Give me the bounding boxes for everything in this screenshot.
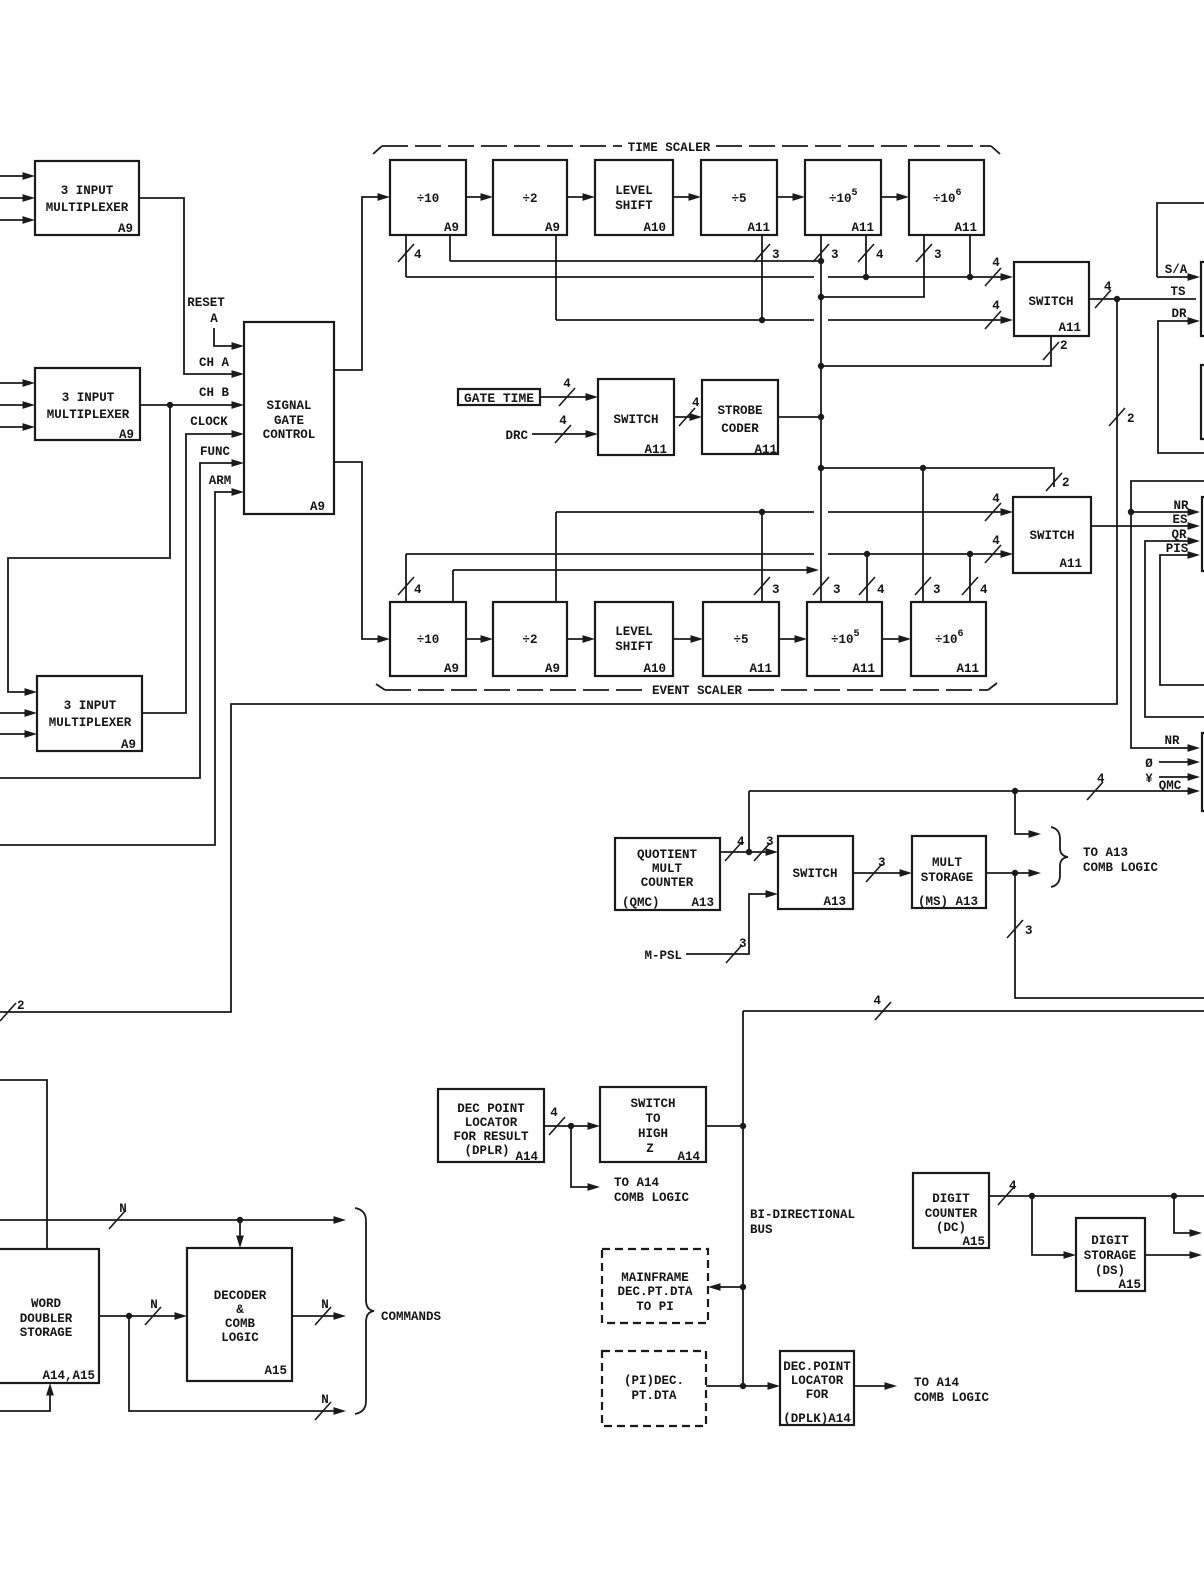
svg-text:STORAGE: STORAGE	[20, 1326, 73, 1340]
wire TS return path down-left-down to left edge (2-bit)	[0, 299, 1135, 1021]
wire MUX2 input 2	[0, 401, 35, 409]
svg-text:4: 4	[877, 583, 885, 597]
svg-text:CLOCK: CLOCK	[190, 415, 228, 429]
svg-text:TO: TO	[645, 1112, 661, 1126]
wire bus branch left into mainframe box	[708, 1283, 743, 1291]
wire GATE TIME to gate switch	[540, 377, 598, 406]
svg-text:4: 4	[876, 248, 884, 262]
wire ARM input from left edge	[0, 488, 244, 845]
wire NR net from right edge down with branches	[1128, 481, 1204, 752]
svg-text:COMMANDS: COMMANDS	[381, 1310, 442, 1324]
block GATE TIME label box	[458, 389, 540, 406]
svg-text:TS: TS	[1170, 285, 1186, 299]
svg-text:GATE TIME: GATE TIME	[464, 392, 534, 406]
block MULT STORAGE (MS) A13	[912, 836, 986, 909]
wire DPLR output to switch-to-high-Z (4-bit)	[544, 1106, 600, 1135]
svg-text:Z: Z	[646, 1142, 654, 1156]
svg-text:DEC.POINT: DEC.POINT	[783, 1360, 851, 1374]
block MUX2 A9 (3 input multiplexer, middle)	[35, 368, 140, 442]
wire time /10^6 3-bit tap with jog to net-X	[821, 235, 942, 297]
svg-text:A9: A9	[310, 500, 325, 514]
wire signal gate control output to event scaler	[334, 462, 390, 643]
svg-text:CH B: CH B	[199, 386, 230, 400]
wire time chain level shift to /5	[673, 193, 701, 201]
wire time chain /10 to /2	[466, 193, 493, 201]
svg-text:TO PI: TO PI	[636, 1300, 674, 1314]
svg-text:(DC): (DC)	[936, 1221, 966, 1235]
block QUOTIENT MULT COUNTER (QMC) A13	[615, 838, 720, 910]
block top right partial box	[1157, 203, 1204, 277]
svg-text:A11: A11	[851, 221, 874, 235]
wire event /10 right tap	[452, 570, 454, 602]
wire FUNC input from left edge	[0, 459, 244, 778]
wire event chain /10^5 to /10^6	[882, 635, 911, 643]
block DEC.POINT LOCATOR FOR (DPLK) A14	[780, 1351, 854, 1426]
block SWITCH3 A13	[778, 836, 853, 909]
svg-text:STROBE: STROBE	[717, 404, 762, 418]
svg-text:4: 4	[1097, 772, 1105, 786]
svg-text:BUS: BUS	[750, 1223, 773, 1237]
node yen symbol input	[1145, 772, 1200, 786]
wire bi-directional 4-bit bus horizontal	[743, 994, 1204, 1020]
wire event bus1 to switch2 input1	[556, 492, 1013, 521]
svg-text:4: 4	[414, 583, 422, 597]
svg-text:DIGIT: DIGIT	[1091, 1234, 1129, 1248]
svg-text:3: 3	[772, 583, 780, 597]
svg-text:RESET: RESET	[187, 296, 225, 310]
svg-text:2: 2	[1062, 476, 1070, 490]
svg-text:SWITCH: SWITCH	[613, 413, 658, 427]
wire strobe coder output to net-X	[778, 416, 821, 418]
svg-text:SHIFT: SHIFT	[615, 640, 653, 654]
svg-text:NR: NR	[1173, 499, 1189, 513]
svg-text:A11: A11	[956, 662, 979, 676]
svg-text:ES: ES	[1172, 513, 1188, 527]
wire event /10^6 3-bit tap	[915, 468, 941, 602]
wire CH A: MUX1 output to signal gate control	[139, 198, 244, 378]
svg-text:A15: A15	[1118, 1278, 1141, 1292]
svg-text:(DS): (DS)	[1095, 1264, 1125, 1278]
svg-text:4: 4	[550, 1106, 558, 1120]
svg-text:(DPLR): (DPLR)	[464, 1144, 509, 1158]
svg-text:÷10: ÷10	[417, 633, 440, 647]
block time divider /2 A9	[493, 160, 567, 235]
svg-text:2: 2	[1060, 339, 1068, 353]
wire QMC output to switch3	[720, 835, 778, 861]
svg-text:3: 3	[833, 583, 841, 597]
node brace COMMANDS	[355, 1208, 442, 1414]
wire MS output to brace	[986, 869, 1041, 877]
wire left edge feed into word doubler storage top	[0, 1080, 47, 1249]
svg-text:4: 4	[992, 492, 1000, 506]
wire S/A from top box into right box A	[1157, 263, 1200, 281]
block MUX1 A9 (3 input multiplexer, top)	[35, 161, 139, 236]
wire MUX2 input 1	[0, 379, 35, 387]
node M-PSL input	[644, 890, 778, 963]
svg-text:4: 4	[980, 583, 988, 597]
wire CLOCK: MUX3 output up to signal gate control	[142, 430, 244, 713]
svg-text:DIGIT: DIGIT	[932, 1192, 970, 1206]
block gate SWITCH A11	[598, 379, 674, 457]
wire time bus1 to switch1 input1	[406, 256, 1013, 286]
svg-text:A11: A11	[747, 221, 770, 235]
svg-text:SWITCH: SWITCH	[1028, 295, 1073, 309]
wire event chain level shift to /5	[673, 635, 703, 643]
wire time /10^5 4-bit tap	[858, 235, 884, 277]
svg-text:FOR: FOR	[806, 1388, 829, 1402]
svg-text:4: 4	[563, 377, 571, 391]
block event LEVEL SHIFT A10	[595, 602, 673, 676]
svg-text:4: 4	[992, 534, 1000, 548]
svg-text:A11: A11	[754, 443, 777, 457]
wire decoder output command (N)	[292, 1298, 346, 1325]
wire event /2 tap	[555, 512, 557, 602]
svg-text:÷10: ÷10	[417, 192, 440, 206]
svg-text:MAINFRAME: MAINFRAME	[621, 1271, 689, 1285]
block right edge box A	[1201, 262, 1204, 336]
block SWITCH1 A11 (time scaler switch)	[1014, 262, 1089, 336]
svg-text:CH A: CH A	[199, 356, 230, 370]
wire gate switch to strobe coder	[674, 396, 702, 426]
block SWITCH TO HIGH Z A14	[600, 1087, 706, 1164]
wire (PI) dec pt data to DPLK	[706, 1382, 780, 1390]
svg-text:2: 2	[17, 999, 25, 1013]
svg-text:A13: A13	[823, 895, 846, 909]
wire event bus3 to switch2 top (2-bit)	[821, 465, 1070, 491]
wire MS 3-bit branch down to right edge	[1007, 873, 1204, 998]
block right edge box NR/ES/QR/PIS	[1202, 497, 1204, 571]
wire PIS feedback loop	[1160, 542, 1204, 685]
svg-text:3: 3	[772, 248, 780, 262]
block time divider /5 A11	[701, 160, 777, 235]
wire event /5 3-bit tap	[754, 512, 780, 602]
wire time chain /5 to /10^5	[777, 193, 805, 201]
block event divider /2 A9	[493, 602, 567, 676]
svg-text:DEC POINT: DEC POINT	[457, 1102, 525, 1116]
wire bi-directional bus vertical	[740, 1011, 746, 1389]
wire time bus2 to switch1 input2	[556, 299, 1013, 329]
block DECODER and COMB LOGIC A15	[187, 1248, 292, 1381]
svg-text:3: 3	[831, 248, 839, 262]
svg-text:PIS: PIS	[1166, 542, 1189, 556]
svg-text:COUNTER: COUNTER	[641, 876, 694, 890]
wire MUX3 input 2	[0, 709, 37, 717]
block time LEVEL SHIFT A10	[595, 160, 673, 235]
wire DC output 4-bit bus to right edge	[989, 1179, 1204, 1205]
svg-text:A9: A9	[444, 221, 459, 235]
svg-text:ARM: ARM	[209, 474, 232, 488]
svg-text:EVENT SCALER: EVENT SCALER	[652, 684, 743, 698]
svg-text:GATE: GATE	[274, 414, 304, 428]
svg-text:NR: NR	[1164, 734, 1180, 748]
svg-text:M-PSL: M-PSL	[644, 949, 682, 963]
svg-text:÷2: ÷2	[522, 192, 537, 206]
block event divider /10^6 A11	[911, 602, 986, 676]
svg-text:N: N	[150, 1298, 158, 1312]
node RESET A input	[187, 296, 244, 350]
block DIGIT STORAGE (DS) A15	[1076, 1218, 1145, 1292]
wire branch down into decoder top	[236, 1220, 244, 1248]
svg-text:&: &	[236, 1303, 244, 1317]
svg-text:S/A: S/A	[1165, 263, 1188, 277]
svg-text:3 INPUT: 3 INPUT	[61, 184, 114, 198]
svg-text:COMB LOGIC: COMB LOGIC	[614, 1191, 690, 1205]
svg-text:3 INPUT: 3 INPUT	[62, 391, 115, 405]
wire N command bus top	[0, 1202, 346, 1229]
svg-text:DOUBLER: DOUBLER	[20, 1312, 73, 1326]
block event divider /10^5 A11	[807, 602, 882, 676]
svg-text:A9: A9	[545, 662, 560, 676]
svg-text:4: 4	[414, 248, 422, 262]
svg-text:A11: A11	[749, 662, 772, 676]
svg-text:(DPLK)A14: (DPLK)A14	[783, 1412, 851, 1426]
svg-text:TIME SCALER: TIME SCALER	[628, 141, 711, 155]
svg-text:A14,A15: A14,A15	[42, 1369, 95, 1383]
wire time /10 right tap	[449, 235, 451, 261]
wire QMC 4-bit bus to right edge box	[749, 772, 1200, 800]
wire switch1 bottom output (2-bit) to net-X	[821, 336, 1068, 366]
svg-text:A11: A11	[954, 221, 977, 235]
svg-text:MULTIPLEXER: MULTIPLEXER	[47, 408, 130, 422]
wire event chain /2 to level shift	[567, 635, 595, 643]
svg-text:3: 3	[934, 248, 942, 262]
block right edge box bottom group	[1202, 733, 1204, 811]
svg-text:LEVEL: LEVEL	[615, 184, 653, 198]
svg-text:(PI)DEC.: (PI)DEC.	[624, 1374, 684, 1388]
svg-text:4: 4	[992, 299, 1000, 313]
svg-text:DR: DR	[1171, 307, 1187, 321]
svg-text:4: 4	[559, 414, 567, 428]
svg-text:FOR RESULT: FOR RESULT	[453, 1130, 529, 1144]
svg-text:4: 4	[737, 835, 745, 849]
svg-text:A10: A10	[643, 221, 666, 235]
block time divider /10^6 A11	[909, 160, 984, 235]
wire MUX1 input 2	[0, 194, 35, 202]
svg-text:SWITCH: SWITCH	[792, 867, 837, 881]
svg-text:2: 2	[1127, 412, 1135, 426]
wire time /10^6 right tap	[969, 235, 971, 277]
svg-text:TO A14: TO A14	[914, 1376, 960, 1390]
block WORD DOUBLER STORAGE A14,A15	[0, 1249, 99, 1383]
block DIGIT COUNTER (DC) A15	[913, 1173, 989, 1249]
svg-text:÷5: ÷5	[733, 633, 748, 647]
wire left edge feed up into WDS bottom	[0, 1383, 54, 1411]
svg-text:¥: ¥	[1145, 772, 1153, 786]
block MUX3 A9 (3 input multiplexer, bottom)	[37, 676, 142, 752]
svg-text:SIGNAL: SIGNAL	[266, 399, 311, 413]
block time divider /10^5 A11	[805, 160, 881, 235]
node phase symbol input	[1145, 757, 1200, 771]
wire DC bus branch down to digit storage	[1032, 1196, 1076, 1259]
wire time chain /10^5 to /10^6	[881, 193, 909, 201]
svg-text:LEVEL: LEVEL	[615, 625, 653, 639]
svg-text:DEC.PT.DTA: DEC.PT.DTA	[617, 1285, 693, 1299]
wire DC bus branch down to right edge arrow	[1174, 1196, 1202, 1237]
wire CH B: MUX2 output to signal gate control	[140, 401, 244, 409]
block DEC POINT LOCATOR FOR RESULT (DPLR) A14	[438, 1089, 544, 1164]
svg-text:MULTIPLEXER: MULTIPLEXER	[49, 716, 132, 730]
svg-text:TO A14: TO A14	[614, 1176, 660, 1190]
svg-text:4: 4	[992, 256, 1000, 270]
svg-text:STORAGE: STORAGE	[921, 871, 974, 885]
svg-text:STORAGE: STORAGE	[1084, 1249, 1137, 1263]
wire QMC bus branch down to brace	[1015, 791, 1041, 838]
block MAINFRAME DEC.PT.DTA TO PI (dashed)	[602, 1249, 708, 1323]
svg-text:÷5: ÷5	[731, 192, 746, 206]
wire branch down to A14 comb logic	[571, 1126, 690, 1205]
wire time /5 3-bit tap	[754, 235, 780, 320]
svg-text:HIGH: HIGH	[638, 1127, 668, 1141]
wire DS output to right edge	[1145, 1251, 1202, 1259]
svg-text:PT.DTA: PT.DTA	[631, 1389, 677, 1403]
wire MUX3 input 3	[0, 730, 37, 738]
svg-text:DECODER: DECODER	[214, 1289, 267, 1303]
svg-text:4: 4	[692, 396, 700, 410]
wire ES: switch2 output to right box	[1091, 513, 1200, 530]
svg-text:LOCATOR: LOCATOR	[465, 1116, 518, 1130]
wire event /10 4-bit tap	[398, 554, 422, 602]
svg-text:(QMC): (QMC)	[622, 896, 660, 910]
svg-text:4: 4	[1104, 280, 1112, 294]
svg-text:WORD: WORD	[31, 1297, 62, 1311]
node DRC input	[505, 414, 598, 443]
wire event /10^6 right tap	[962, 554, 988, 602]
EVENT SCALER bracket	[376, 683, 997, 698]
wire CH B cascade from MUX2 output down to MUX3 input 1	[8, 402, 173, 696]
svg-text:TO A13: TO A13	[1083, 846, 1128, 860]
block SWITCH2 A11 (event scaler switch)	[1013, 497, 1091, 573]
wire DR feedback loop into right box A	[1158, 307, 1204, 453]
svg-text:N: N	[321, 1393, 329, 1407]
wire MUX1 input 1	[0, 172, 35, 180]
svg-text:A10: A10	[643, 662, 666, 676]
svg-text:COUNTER: COUNTER	[925, 1207, 978, 1221]
wire WDS branch down command (N)	[129, 1316, 346, 1420]
block right edge box B	[1201, 365, 1204, 439]
wire event chain /10 to /2	[466, 635, 493, 643]
svg-text:N: N	[321, 1298, 329, 1312]
svg-text:CODER: CODER	[721, 422, 759, 436]
svg-text:MULT: MULT	[932, 856, 963, 870]
svg-text:3: 3	[933, 583, 941, 597]
node BI-DIRECTIONAL BUS label	[750, 1208, 855, 1237]
wire switch3 to mult storage (3-bit)	[853, 856, 912, 882]
wire time /10 4-bit tap	[398, 235, 422, 277]
svg-text:3: 3	[1025, 924, 1033, 938]
node brace TO A13 COMB LOGIC	[1051, 827, 1159, 887]
wire switch1 output TS net (4-bit)	[1089, 280, 1196, 308]
svg-text:COMB LOGIC: COMB LOGIC	[1083, 861, 1159, 875]
svg-text:A13: A13	[691, 896, 714, 910]
svg-text:DRC: DRC	[505, 429, 528, 443]
svg-text:Ø: Ø	[1145, 757, 1153, 771]
svg-text:N: N	[119, 1202, 127, 1216]
svg-text:FUNC: FUNC	[200, 445, 231, 459]
svg-text:SWITCH: SWITCH	[630, 1097, 675, 1111]
wire MUX1 input 3	[0, 216, 35, 224]
svg-text:A15: A15	[962, 1235, 985, 1249]
svg-text:MULT: MULT	[652, 862, 683, 876]
wire switch-to-high-Z output to bus	[706, 1125, 743, 1127]
wire MUX2 input 3	[0, 423, 35, 431]
svg-text:CONTROL: CONTROL	[263, 428, 316, 442]
wire time chain /2 to level shift	[567, 193, 595, 201]
svg-text:A15: A15	[264, 1364, 287, 1378]
wire event chain /5 to /10^5	[779, 635, 807, 643]
svg-text:QUOTIENT: QUOTIENT	[637, 848, 698, 862]
svg-text:A11: A11	[644, 443, 667, 457]
svg-text:A11: A11	[1058, 321, 1081, 335]
svg-text:MULTIPLEXER: MULTIPLEXER	[46, 201, 129, 215]
wire time bus0 /10 tap to net-X	[450, 260, 821, 262]
svg-text:(MS) A13: (MS) A13	[918, 895, 978, 909]
wire DPLK output to A14 comb logic	[854, 1376, 990, 1405]
wire signal gate control output to time scaler	[334, 193, 390, 370]
svg-text:BI-DIRECTIONAL: BI-DIRECTIONAL	[750, 1208, 855, 1222]
svg-text:A11: A11	[1059, 557, 1082, 571]
svg-text:SHIFT: SHIFT	[615, 199, 653, 213]
svg-text:QR: QR	[1171, 528, 1187, 542]
svg-text:÷2: ÷2	[522, 633, 537, 647]
svg-text:COMB: COMB	[225, 1317, 256, 1331]
block event divider /5 A11	[703, 602, 779, 676]
block event divider /10 A9	[390, 602, 466, 676]
svg-text:A9: A9	[545, 221, 560, 235]
svg-text:3: 3	[878, 856, 886, 870]
svg-text:3 INPUT: 3 INPUT	[64, 699, 117, 713]
svg-text:SWITCH: SWITCH	[1029, 529, 1074, 543]
wire event bus0 /10 tap arrow into net-X	[453, 566, 819, 574]
block (PI)DEC. PT.DTA (dashed)	[602, 1351, 706, 1426]
svg-text:A14: A14	[677, 1150, 700, 1164]
wire QMC output tap up to bus	[746, 791, 752, 855]
svg-text:3: 3	[766, 835, 774, 849]
svg-text:A9: A9	[444, 662, 459, 676]
svg-text:A9: A9	[118, 222, 133, 236]
svg-text:A11: A11	[852, 662, 875, 676]
block time divider /10 A9	[390, 160, 466, 235]
svg-text:4: 4	[1009, 1179, 1017, 1193]
svg-text:A9: A9	[119, 428, 134, 442]
svg-text:LOGIC: LOGIC	[221, 1331, 259, 1345]
svg-text:A14: A14	[515, 1150, 538, 1164]
svg-text:A9: A9	[121, 738, 136, 752]
wire WDS output to decoder (N)	[99, 1298, 187, 1325]
svg-text:3: 3	[739, 937, 747, 951]
svg-text:LOCATOR: LOCATOR	[791, 1374, 844, 1388]
wire event /10^5 4-bit tap	[859, 554, 885, 602]
svg-text:4: 4	[873, 994, 881, 1008]
wire QR feedback loop	[1145, 528, 1204, 717]
wire scaler net-X vertical (3-bit common)	[813, 235, 841, 602]
block STROBE CODER A11	[702, 380, 778, 457]
wire time /2 tap down to bus2	[555, 235, 557, 320]
block SIGNAL GATE CONTROL A9	[244, 322, 334, 514]
svg-text:A: A	[210, 312, 218, 326]
wire event bus2 to switch2 input2	[406, 534, 1013, 563]
svg-text:COMB LOGIC: COMB LOGIC	[914, 1391, 990, 1405]
TIME SCALER bracket	[373, 141, 1000, 155]
